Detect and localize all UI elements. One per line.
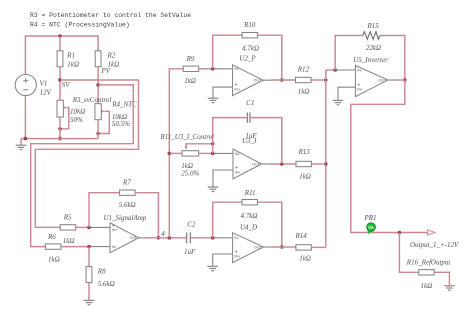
svg-text:1kΩ: 1kΩ: [63, 237, 75, 245]
wire C1 feedback left: [213, 118, 247, 154]
pin stub U4 OUT: [264, 246, 272, 248]
svg-text:R13: R13: [298, 148, 311, 156]
pin stub U3 IN-: [213, 152, 233, 154]
label R12: [297, 65, 310, 73]
wire V1 top lead to top rail: [25, 36, 98, 75]
pin stub U3 IN+ to ground: [213, 170, 233, 187]
svg-text:50.5%: 50.5%: [112, 120, 130, 128]
svg-text:C2: C2: [187, 220, 196, 228]
wire R3 bottom lead: [59, 117, 61, 139]
capacitor C1: [247, 112, 250, 122]
svg-text:IN+: IN+: [357, 88, 363, 92]
svg-text:SV: SV: [62, 81, 71, 89]
label R15: [367, 22, 380, 30]
svg-text:1uF: 1uF: [184, 248, 196, 256]
svg-text:IN+: IN+: [235, 170, 241, 174]
wire R4 bottom lead: [97, 120, 99, 139]
value label R3 50%: [70, 116, 83, 124]
svg-text:IN+: IN+: [234, 88, 240, 92]
svg-text:U5_Inverter: U5_Inverter: [353, 56, 388, 64]
junction U2 inverting node: [211, 67, 215, 71]
svg-text:OUT: OUT: [129, 236, 138, 240]
svg-text:V1: V1: [40, 79, 48, 87]
label R9: [186, 55, 195, 63]
svg-text:5.6kΩ: 5.6kΩ: [119, 201, 136, 209]
junction R16 tap on output: [398, 231, 402, 235]
wire net PV to R6: [31, 85, 134, 247]
resistor R5: [60, 225, 75, 230]
junction pot branch tap: [168, 152, 172, 156]
junction U1 noninverting node: [87, 226, 91, 230]
svg-text:PV: PV: [101, 67, 111, 75]
value label C1 1uF: [245, 132, 257, 140]
svg-text:R7: R7: [122, 178, 131, 186]
pin stub U5 IN-: [335, 69, 355, 71]
op-amp U1_SignalAmp: [110, 223, 139, 253]
wire U5 output stub: [396, 79, 405, 81]
label R2: [107, 52, 116, 60]
junction U2 output node: [280, 78, 284, 82]
resistor R16_RefOutput: [419, 270, 435, 275]
op-amp U4_D: [233, 233, 264, 263]
wire V1 bottom lead: [24, 96, 26, 139]
wire R3 wiper: [60, 108, 69, 129]
label R7: [122, 178, 131, 186]
svg-text:R3 = Potentiometer to control: R3 = Potentiometer to control the SetVal…: [30, 12, 191, 19]
ground symbol U5: [333, 100, 344, 104]
wire R12 to summing bus: [311, 79, 326, 81]
label R14: [295, 232, 308, 240]
wire R11 feedback left: [213, 202, 242, 238]
wire output routing: [351, 80, 428, 233]
svg-text:R12: R12: [297, 65, 310, 73]
ground symbol U3: [208, 187, 219, 191]
wire R15 feedback right: [380, 36, 405, 81]
resistor R8: [86, 267, 92, 283]
value label R2 1kOhm: [108, 61, 120, 69]
pin stub U2 IN+ to ground: [213, 87, 233, 98]
resistor R14: [296, 245, 312, 250]
value label R11 pot 1kOhm: [181, 162, 193, 170]
wire ground bus: [21, 138, 98, 140]
wire summing bus top to U5: [326, 69, 335, 71]
resistor R1: [57, 51, 63, 67]
value label R3 10kOhm: [70, 108, 85, 116]
op-amp U3_I: [233, 149, 262, 179]
wire R15 feedback left: [335, 36, 363, 71]
junction U4 inverting node: [211, 236, 215, 240]
wire branch vertical node4 to R9: [169, 69, 183, 238]
wire R5 to U1 input node: [76, 226, 89, 228]
value label R16 1kOhm: [421, 282, 433, 290]
svg-text:R4 = NTC (ProcessingValue): R4 = NTC (ProcessingValue): [30, 21, 130, 28]
junction R15 feedback tap: [333, 68, 337, 72]
wire R2 bottom lead to R4: [97, 67, 99, 104]
junction node SV: [58, 78, 62, 82]
pin stub U3 OUT: [262, 163, 271, 165]
svg-text:IN-: IN-: [112, 245, 118, 249]
wire R7 feedback left: [89, 193, 120, 228]
svg-text:PR1: PR1: [364, 214, 377, 222]
wire node4 branch to pot: [169, 152, 182, 154]
svg-text:IN+: IN+: [234, 254, 240, 258]
ground symbol left: [16, 145, 27, 149]
voltage source V1: [15, 74, 36, 95]
label R10: [243, 21, 256, 29]
label Output_1_+-12V: [410, 241, 459, 249]
svg-text:1kΩ: 1kΩ: [48, 256, 60, 264]
capacitor C2: [187, 232, 191, 243]
probe PR1: [367, 223, 376, 235]
value label R7 5.6kOhm: [119, 201, 136, 209]
junction R3 at ground bus: [58, 137, 62, 141]
svg-text:U3_I: U3_I: [242, 137, 257, 145]
ground symbol R8: [84, 300, 95, 304]
svg-text:10kΩ: 10kΩ: [70, 108, 85, 116]
op-amp U2_P: [233, 65, 264, 96]
svg-text:OUT: OUT: [252, 162, 261, 166]
svg-text:OUT: OUT: [254, 245, 263, 249]
junction R4 wiper to bottom lead: [96, 132, 100, 136]
svg-text:R15: R15: [367, 22, 380, 30]
value label R1 1kOhm: [67, 61, 79, 69]
svg-text:R16_RefOutput: R16_RefOutput: [406, 258, 452, 266]
junction R3 wiper to bottom lead: [58, 127, 62, 131]
svg-text:R14: R14: [295, 232, 308, 240]
svg-text:IN+: IN+: [112, 228, 118, 232]
value label R9 1kOhm: [184, 77, 196, 85]
svg-text:R8: R8: [97, 267, 106, 275]
value label R8 5.6kOhm: [98, 280, 115, 288]
junction summing bus at R12: [324, 78, 328, 82]
svg-text:IN-: IN-: [357, 68, 363, 72]
svg-text:VA: VA: [368, 225, 374, 230]
junction I-branch at node 4: [168, 236, 172, 240]
resistor R2: [95, 51, 101, 67]
svg-text:Output_1_+-12V: Output_1_+-12V: [410, 241, 459, 249]
svg-text:U1_SignalAmp: U1_SignalAmp: [104, 214, 147, 222]
svg-text:25.0%: 25.0%: [181, 170, 199, 178]
wire U2 output to R12: [271, 79, 296, 81]
wire U3 output to R13: [270, 163, 296, 165]
svg-text:IN-: IN-: [234, 67, 240, 71]
junction top rail at R1: [58, 34, 62, 38]
wire R8 top lead: [88, 247, 90, 267]
junction V1 at ground bus: [24, 137, 28, 141]
wire R10 feedback left: [213, 35, 242, 69]
junction U5 output node: [403, 78, 407, 82]
annotation text line 2: [30, 21, 130, 28]
pin stub U5 OUT: [388, 79, 396, 81]
svg-text:C1: C1: [246, 99, 254, 107]
label R1: [66, 52, 75, 60]
wire net SV to R5: [35, 80, 138, 227]
ground symbol U2: [208, 98, 219, 102]
pin stub U1 OUT: [139, 237, 146, 239]
svg-text:IN-: IN-: [234, 236, 240, 240]
label R11_U3_I_Control: [160, 133, 215, 141]
pin stub U1 IN+: [89, 226, 110, 228]
output connector arrow Output_1_+-12V: [428, 230, 435, 235]
value label 12V: [40, 89, 52, 97]
label PR1: [364, 214, 377, 222]
wire U4 output to R14: [272, 246, 296, 248]
svg-text:OUT: OUT: [254, 79, 263, 83]
value label C2 1uF: [184, 248, 196, 256]
pin stub U2 IN-: [213, 68, 233, 70]
svg-text:R5: R5: [63, 214, 72, 222]
svg-text:OUT: OUT: [379, 78, 388, 82]
label C2: [187, 220, 196, 228]
label R6: [47, 233, 56, 241]
junction U3 output node: [280, 162, 284, 166]
junction node PV: [96, 83, 100, 87]
wire ground stub left: [20, 139, 22, 146]
wire R8 bottom lead: [88, 283, 90, 301]
svg-text:R10: R10: [243, 21, 256, 29]
pin stub U4 IN-: [213, 237, 233, 239]
wire C2 to U4 inverting node: [191, 237, 213, 239]
potentiometer R4_NTC: [95, 104, 105, 120]
wire R10 feedback right: [258, 35, 282, 80]
resistor R13: [296, 161, 312, 166]
op-amp U5_Inverter: [355, 66, 388, 97]
svg-text:IN-: IN-: [235, 152, 241, 156]
potentiometer R3_svControl: [57, 100, 67, 117]
wire R1 top lead: [59, 36, 61, 51]
svg-text:1kΩ: 1kΩ: [299, 254, 311, 262]
svg-text:R2: R2: [107, 52, 116, 60]
svg-text:R1: R1: [66, 52, 75, 60]
ground symbol R16: [444, 286, 455, 290]
pin stub U5 IN+ to ground: [338, 87, 355, 100]
wire summing bus vertical: [325, 70, 327, 247]
wire R1 bottom lead to R3: [59, 67, 61, 100]
wire node 4 from U1 to C2: [146, 237, 186, 239]
svg-text:50%: 50%: [70, 116, 83, 124]
svg-text:4.7kΩ: 4.7kΩ: [242, 44, 259, 52]
resistor R15 zigzag: [363, 32, 380, 40]
svg-text:1kΩ: 1kΩ: [421, 282, 433, 290]
value label R14 1kOhm: [299, 254, 311, 262]
svg-text:1kΩ: 1kΩ: [184, 77, 196, 85]
value label R10 4.7kOhm: [242, 44, 259, 52]
label U3_I: [242, 137, 257, 145]
value label R5 1kOhm: [63, 237, 75, 245]
label R5: [63, 214, 72, 222]
resistor R9: [183, 66, 199, 71]
wire pot to U3 inverting node: [199, 152, 213, 154]
ground symbol U4: [207, 266, 218, 270]
wire pot wiper up to C1 node: [186, 144, 213, 147]
value label R11 pot 25.0%: [181, 170, 199, 178]
svg-text:R11_U3_I_Control: R11_U3_I_Control: [160, 133, 215, 141]
value label R4 10kOhm: [112, 113, 127, 121]
svg-text:4.7kΩ: 4.7kΩ: [241, 212, 258, 220]
label V1: [40, 79, 48, 87]
value label R4 50.5%: [112, 120, 130, 128]
label R4_NTC: [111, 101, 137, 109]
annotation text line 1: [30, 12, 191, 19]
value label R13 1kOhm: [299, 173, 311, 181]
wire R14 to summing bus: [312, 246, 326, 248]
wire output node to R16: [399, 233, 418, 273]
value label R11 4.7kOhm: [241, 212, 258, 220]
label U5_Inverter: [353, 56, 388, 64]
svg-text:4: 4: [161, 230, 165, 238]
junction pot wiper at C1 drop: [211, 142, 215, 146]
label R16_RefOutput: [406, 258, 452, 266]
svg-text:5.6kΩ: 5.6kΩ: [98, 280, 115, 288]
value label R12 1kOhm: [298, 88, 310, 96]
wire R6 to U1 input node: [61, 246, 89, 248]
pin stub U1 IN-: [89, 246, 110, 248]
svg-text:1kΩ: 1kΩ: [298, 88, 310, 96]
label R8: [97, 267, 106, 275]
svg-text:22kΩ: 22kΩ: [366, 44, 381, 52]
resistor R11: [242, 200, 258, 205]
svg-text:R3_svControl: R3_svControl: [72, 96, 112, 104]
junction summing bus at R13: [324, 162, 328, 166]
wire R11 feedback right: [258, 202, 282, 247]
svg-text:U4_D: U4_D: [240, 223, 257, 231]
junction U1 inverting node: [87, 245, 91, 249]
pin stub U2 OUT: [263, 79, 271, 81]
junction U3 inverting node: [211, 152, 215, 156]
label C1: [246, 99, 254, 107]
wire R7 feedback right: [135, 193, 158, 238]
svg-text:R9: R9: [186, 55, 195, 63]
label U4_D: [240, 223, 257, 231]
node PV label: [101, 67, 111, 75]
node SV label: [62, 81, 71, 89]
resistor R12: [296, 77, 312, 82]
wire R9 to U2 inverting node: [199, 68, 213, 70]
svg-text:R6: R6: [47, 233, 56, 241]
potentiometer R11_U3_I_Control: [182, 146, 199, 156]
node 4 label: [161, 230, 165, 238]
svg-text:1kΩ: 1kΩ: [67, 61, 79, 69]
pin stub U4 IN+ to ground: [213, 254, 233, 266]
junction U4 output node: [280, 245, 284, 249]
wire R4 wiper: [98, 111, 109, 133]
svg-text:R11: R11: [244, 189, 256, 197]
resistor R10: [242, 33, 258, 38]
resistor R7: [120, 190, 136, 195]
svg-text:12V: 12V: [40, 89, 52, 97]
value label R6 1kOhm: [48, 256, 60, 264]
svg-text:1kΩ: 1kΩ: [299, 173, 311, 181]
resistor R6: [45, 244, 61, 249]
svg-text:U2_P: U2_P: [239, 55, 256, 63]
wire R16 to ground: [434, 272, 449, 286]
label R13: [298, 148, 311, 156]
wire R13 to summing bus: [312, 163, 326, 165]
junction R7 at node 4: [157, 236, 161, 240]
label R3_svControl: [72, 96, 112, 104]
label U1_SignalAmp: [104, 214, 147, 222]
label R11: [244, 189, 256, 197]
wire C1 feedback right: [250, 118, 281, 164]
value label R15 22kOhm: [366, 44, 381, 52]
label U2_P: [239, 55, 256, 63]
